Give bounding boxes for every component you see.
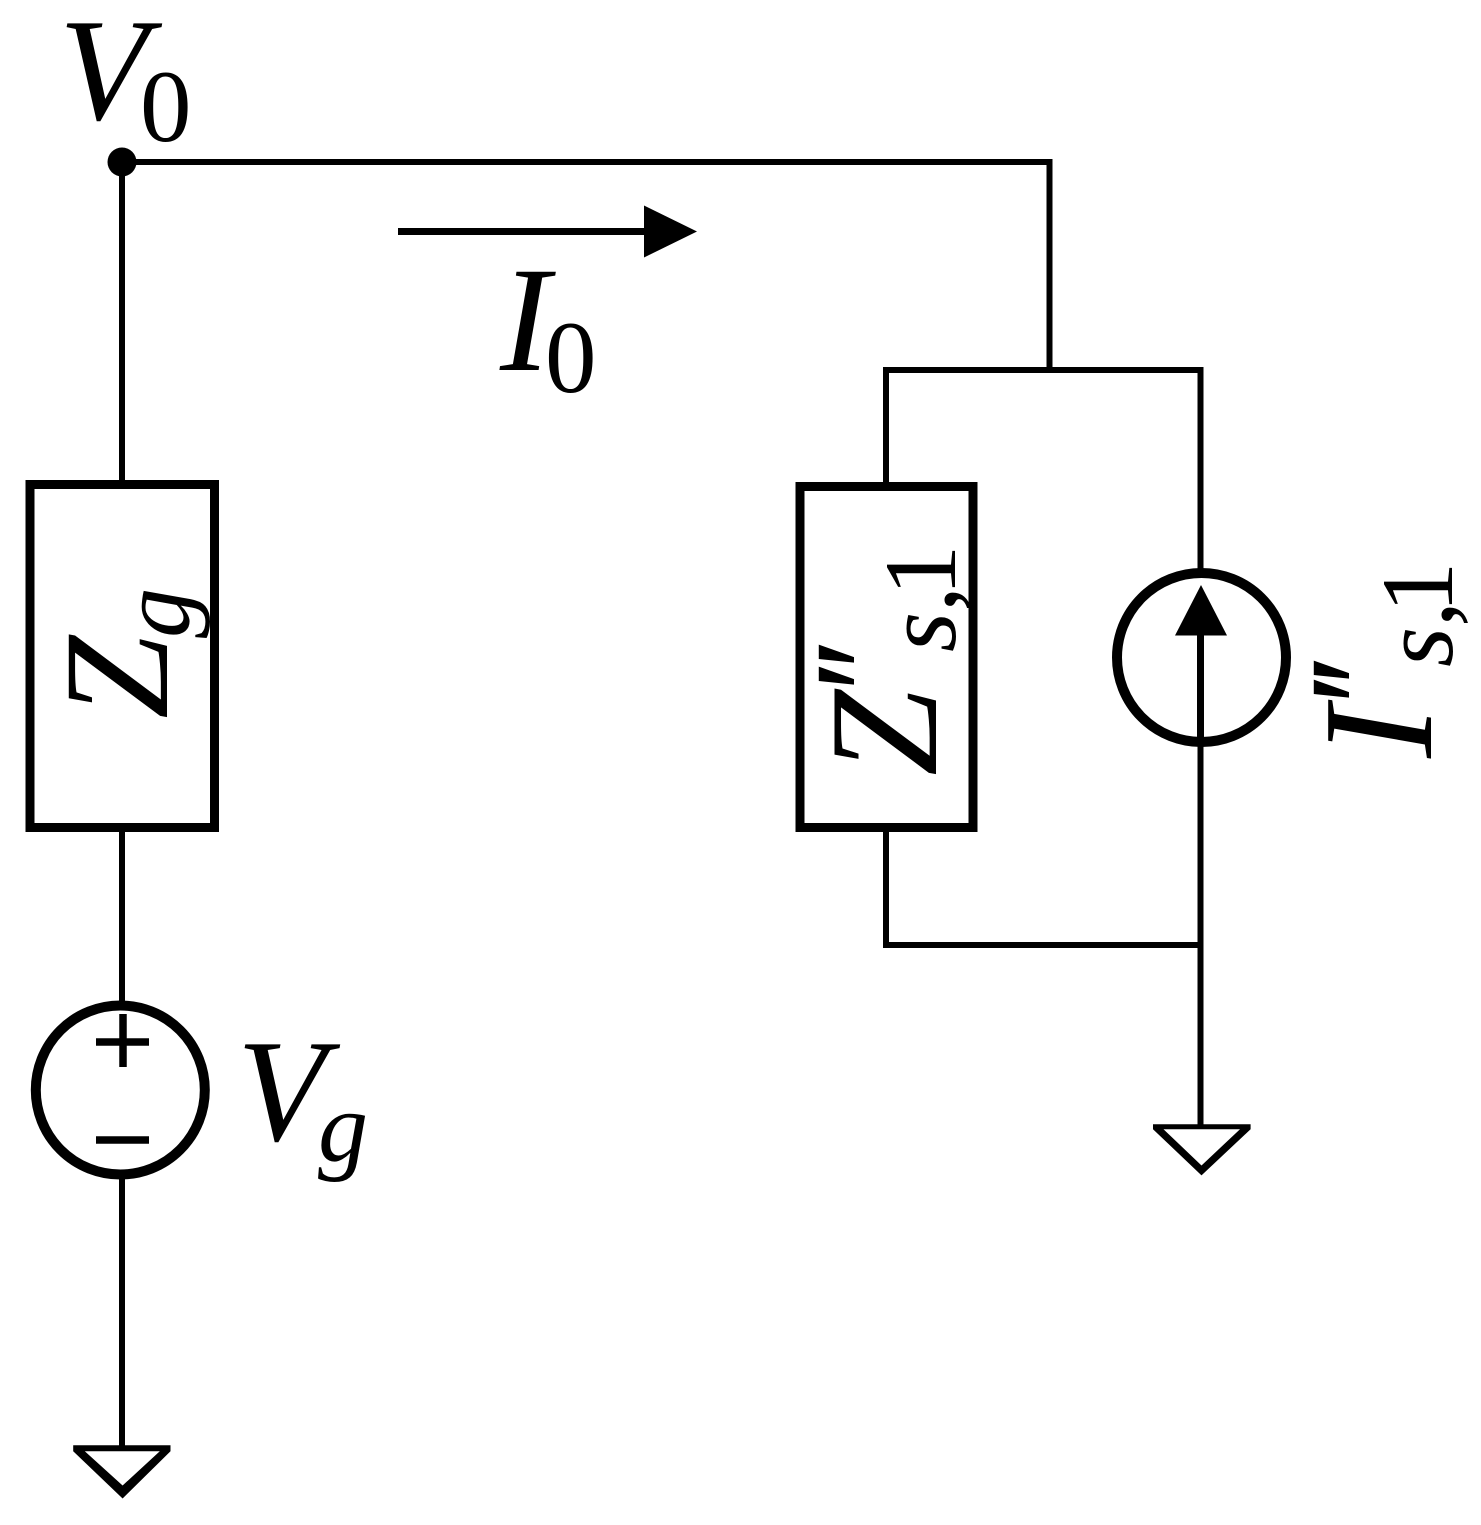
svg-text:g: g — [100, 588, 211, 638]
svg-text:0: 0 — [545, 301, 597, 415]
svg-text:g: g — [318, 1072, 368, 1183]
svg-text:s,1: s,1 — [864, 545, 978, 652]
svg-text:′: ′ — [784, 659, 950, 692]
svg-text:0: 0 — [140, 50, 192, 164]
svg-text:I: I — [1291, 699, 1465, 759]
svg-text:Z: Z — [34, 634, 200, 719]
svg-text:′: ′ — [1279, 672, 1445, 705]
svg-text:Z: Z — [798, 688, 970, 776]
svg-text:s,1: s,1 — [1361, 562, 1475, 667]
